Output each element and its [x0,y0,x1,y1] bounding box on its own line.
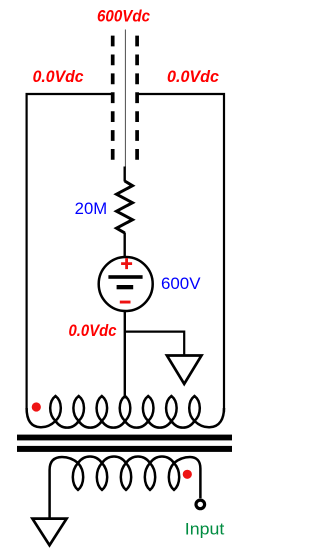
wire battery bottom to transformer center tap [124,311,126,399]
resistor R1 top lead [123,167,125,182]
transformer TX1 core bar bottom [17,446,232,452]
transformer TX1 primary dot [32,402,41,411]
voltage source V1 circle [99,257,153,311]
wire junction to ground branch [125,332,184,356]
resistor R1 bottom lead [123,233,125,258]
wire top-right + right side [137,94,225,412]
svg-text:Input: Input [185,519,225,538]
svg-text:0.0Vdc: 0.0Vdc [33,67,85,86]
voltage source V1 long plate [108,275,142,279]
input terminal pin circle [196,500,205,509]
svg-text:600Vdc: 600Vdc [97,7,150,26]
svg-text:20M: 20M [75,200,108,218]
transformer TX1 core bar top [17,435,232,441]
voltage source V1 short plate [117,285,134,289]
transformer TX1 secondary winding [50,456,201,519]
ground symbol right [167,356,202,384]
transformer TX1 primary winding [27,396,224,428]
dashed riser right [135,36,139,161]
ground symbol bottom left [32,519,66,546]
resistor R1 body 20M [117,181,133,233]
voltage source V1 minus sign [120,301,131,304]
transformer TX1 secondary dot [183,470,192,479]
wire top-left + left side [27,94,114,412]
svg-text:0.0Vdc: 0.0Vdc [167,67,220,86]
svg-text:600V: 600V [161,275,201,293]
svg-text:0.0Vdc: 0.0Vdc [69,321,117,340]
net 600Vdc thin stem line [124,30,126,168]
voltage source V1 plus sign [121,258,132,269]
dashed riser left [111,36,115,161]
